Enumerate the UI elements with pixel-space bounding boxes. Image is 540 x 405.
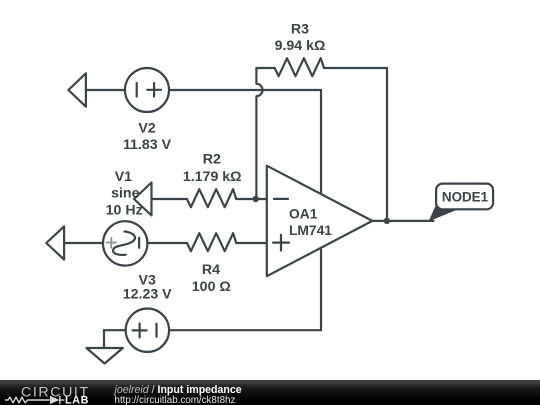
svg-text:OA1: OA1 [289, 207, 318, 222]
wire (V+ pin drop) [320, 90, 322, 194]
svg-text:12.23 V: 12.23 V [123, 287, 172, 303]
label OA1 / LM741 [289, 207, 332, 238]
ground [87, 348, 123, 364]
port arrow (V2 left terminal) [68, 73, 86, 106]
port arrow (V1 left terminal) [46, 226, 64, 259]
wire [324, 67, 387, 69]
svg-text:10 Hz: 10 Hz [106, 203, 143, 219]
wire [64, 242, 103, 244]
svg-text:NODE1: NODE1 [442, 189, 489, 204]
svg-text:R4: R4 [202, 262, 220, 278]
wire [169, 329, 321, 331]
voltage source V1 (sine) [103, 221, 147, 265]
node flag NODE1 [429, 184, 494, 222]
wire [104, 329, 126, 331]
svg-text:V2: V2 [138, 120, 155, 136]
junction (inverting input node) [253, 196, 259, 202]
wire [236, 198, 265, 200]
wire [103, 330, 105, 348]
svg-text:http://circuitlab.com/ck8t8hz: http://circuitlab.com/ck8t8hz [115, 395, 236, 405]
wire (V- pin drop) [320, 248, 322, 331]
wire [152, 198, 188, 200]
svg-text:R3: R3 [291, 21, 309, 37]
resistor R4 [187, 233, 236, 251]
wire [236, 242, 265, 244]
svg-text:1.179 kΩ: 1.179 kΩ [183, 169, 242, 185]
wire [169, 89, 321, 91]
wire (feedback drop) [386, 68, 388, 221]
port arrow (R2 left terminal) [134, 183, 152, 216]
resistor R3 [275, 58, 324, 76]
voltage source V3 [126, 309, 169, 352]
svg-text:V1: V1 [115, 169, 132, 185]
wire (inverting node vertical with hop) [256, 68, 262, 199]
CircuitLab logo [5, 384, 90, 405]
wire [86, 89, 125, 91]
svg-text:joelreid / Input impedance: joelreid / Input impedance [113, 384, 242, 396]
resistor R2 [187, 189, 236, 207]
svg-text:9.94 kΩ: 9.94 kΩ [275, 38, 326, 54]
wire [256, 67, 274, 69]
svg-text:11.83 V: 11.83 V [123, 137, 172, 153]
wire [147, 242, 187, 244]
wire (output) [372, 220, 433, 222]
svg-text:sine: sine [111, 186, 139, 202]
svg-text:R2: R2 [203, 152, 221, 168]
svg-text:LM741: LM741 [289, 223, 332, 238]
junction (output node) [384, 218, 390, 224]
svg-text:100 Ω: 100 Ω [192, 279, 231, 295]
svg-text:LAB: LAB [65, 395, 89, 405]
voltage source V2 [125, 68, 169, 112]
op-amp OA1 [267, 166, 373, 277]
